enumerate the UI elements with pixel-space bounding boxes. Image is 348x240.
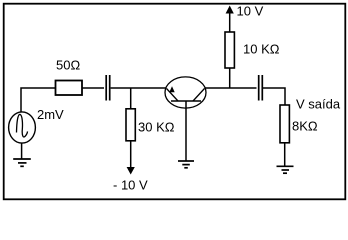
svg-text:50Ω: 50Ω xyxy=(56,58,80,73)
svg-text:8KΩ: 8KΩ xyxy=(292,119,318,134)
svg-text:- 10 V: - 10 V xyxy=(113,178,148,193)
svg-text:10 V: 10 V xyxy=(237,3,264,18)
svg-text:2mV: 2mV xyxy=(37,107,64,122)
svg-text:V saída: V saída xyxy=(296,97,341,112)
svg-text:10 KΩ: 10 KΩ xyxy=(243,42,280,57)
svg-text:30 KΩ: 30 KΩ xyxy=(138,120,175,135)
